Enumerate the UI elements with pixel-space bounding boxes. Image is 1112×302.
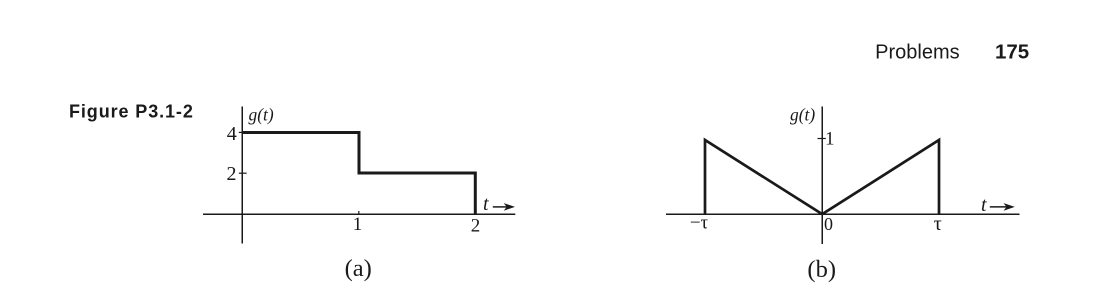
- svg-text:t: t: [483, 193, 489, 215]
- svg-text:g(t): g(t): [249, 104, 274, 124]
- svg-text:175: 175: [995, 41, 1029, 64]
- svg-text:Problems: Problems: [875, 42, 959, 64]
- svg-text:τ: τ: [934, 213, 942, 235]
- svg-text:g(t): g(t): [790, 104, 815, 124]
- svg-text:1: 1: [353, 214, 363, 235]
- svg-text:Figure P3.1-2: Figure P3.1-2: [69, 102, 194, 122]
- svg-text:t: t: [981, 194, 987, 216]
- svg-text:2: 2: [227, 163, 237, 185]
- svg-text:1: 1: [825, 128, 835, 149]
- svg-text:4: 4: [227, 123, 237, 145]
- svg-text:0: 0: [824, 214, 833, 234]
- svg-text:−τ: −τ: [690, 213, 709, 234]
- svg-text:2: 2: [471, 215, 481, 236]
- svg-text:(b): (b): [807, 256, 836, 283]
- svg-text:(a): (a): [345, 255, 372, 282]
